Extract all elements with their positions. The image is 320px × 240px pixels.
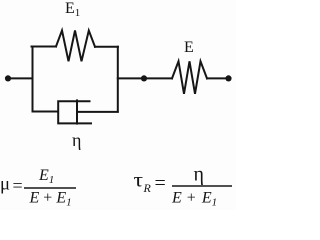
svg-text:η: η xyxy=(72,130,81,150)
spring E (series spring) xyxy=(172,61,207,94)
dashpot η piston xyxy=(76,100,78,123)
node dot (middle) xyxy=(141,75,147,81)
svg-text:=: = xyxy=(155,173,166,195)
wire: spring E to right terminal xyxy=(207,77,229,79)
wire: left vertical rail of parallel branch xyxy=(32,47,34,112)
svg-text:=: = xyxy=(13,176,23,196)
svg-text:E1: E1 xyxy=(65,0,80,19)
wire: left input lead xyxy=(8,77,33,79)
terminal dot (right) xyxy=(225,75,231,81)
spring E1 (top branch) xyxy=(56,31,95,62)
svg-text:E1: E1 xyxy=(38,167,54,186)
wire: middle node to spring E xyxy=(144,77,172,79)
svg-text:τ: τ xyxy=(134,170,144,192)
wire: bottom rail to dashpot xyxy=(33,111,59,113)
svg-text:η: η xyxy=(194,164,204,186)
svg-text:E: E xyxy=(184,39,194,56)
wire: top rail right segment xyxy=(95,46,118,48)
formula mu = E1/(E+E1) xyxy=(0,167,76,209)
svg-text:R: R xyxy=(143,181,152,195)
terminal dot (left) xyxy=(5,75,11,81)
wire: right vertical rail of parallel branch xyxy=(117,47,119,112)
wire: top rail left segment xyxy=(32,46,57,48)
svg-text:μ: μ xyxy=(0,174,10,194)
wire: output lead from parallel block xyxy=(118,77,144,79)
formula tau_R = eta/(E+E1) xyxy=(134,164,233,209)
dashpot η cylinder (open right) xyxy=(58,101,91,123)
svg-text:E + E1: E + E1 xyxy=(171,190,217,209)
dashpot η piston rod xyxy=(77,111,118,113)
svg-text:E + E1: E + E1 xyxy=(29,190,72,209)
